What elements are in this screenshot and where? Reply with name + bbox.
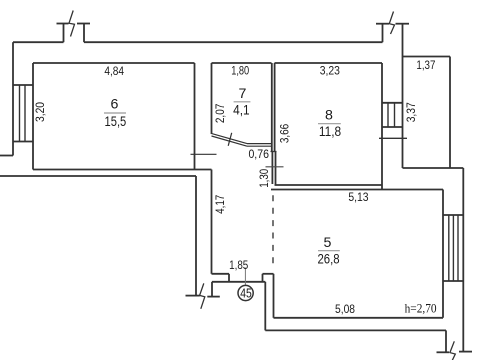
wire room 5 south wall inner (274, 317, 444, 319)
window W1 in left wall (13, 85, 33, 142)
node apartment number circle (238, 285, 253, 300)
svg-text:45: 45 (240, 287, 252, 301)
entry door recess jamb east (262, 274, 264, 282)
svg-text:4,84: 4,84 (104, 64, 124, 78)
jamb tick at sill (271, 151, 277, 153)
node room 5 fraction bar (318, 250, 340, 252)
entry door recess jamb west (228, 274, 230, 282)
wire left exterior wall (12, 42, 14, 155)
corridor south wall inner east segment (263, 273, 274, 275)
svg-text:4,1: 4,1 (233, 103, 250, 119)
svg-text:5,13: 5,13 (348, 190, 368, 204)
leader line to apartment number (244, 268, 246, 286)
svg-text:3,23: 3,23 (320, 64, 340, 78)
svg-text:1,80: 1,80 (231, 64, 249, 78)
wall between room 7 and room 8 west line upper (271, 63, 273, 152)
svg-text:26,8: 26,8 (317, 251, 339, 267)
room 8 walls (275, 63, 383, 190)
svg-text:11,8: 11,8 (319, 124, 341, 140)
door opening tick room 6 (191, 153, 217, 155)
wire left wall step to image edge (0, 155, 13, 157)
wire top exterior wall left of break (13, 41, 64, 43)
svg-text:5,08: 5,08 (335, 302, 355, 316)
svg-text:3,66: 3,66 (278, 124, 292, 143)
svg-text:8: 8 (325, 107, 333, 123)
wall between room 7 and room 8 east line upper (274, 63, 276, 152)
fraction bars (104, 102, 341, 251)
svg-text:6: 6 (110, 96, 118, 112)
window W3 in right wall (443, 215, 463, 281)
wire bottom-right wall stub (445, 330, 447, 352)
node bottom-right wall break (437, 341, 473, 360)
svg-text:1,37: 1,37 (416, 58, 435, 72)
svg-text:7: 7 (239, 86, 247, 102)
svg-text:3,20: 3,20 (33, 102, 47, 122)
wire outer boundary west of room 5 (264, 282, 266, 331)
node room 8 fraction bar (318, 123, 341, 125)
wire right inner wall (442, 190, 444, 318)
svg-text:h=2,70: h=2,70 (405, 301, 437, 315)
room 6 interior box (33, 63, 195, 170)
svg-text:5: 5 (324, 235, 332, 251)
landing box 1,37 (403, 57, 464, 169)
wire right outer wall (462, 168, 464, 352)
node top-right wall break (376, 12, 409, 43)
svg-text:4,17: 4,17 (213, 195, 227, 214)
wire room 5 north wall (271, 189, 443, 191)
wall west line lower (271, 152, 273, 185)
corridor south wall inner west segment (212, 273, 230, 275)
wire wall below room 6 bottom line (0, 175, 196, 177)
wire room 5 west wall (273, 274, 275, 318)
svg-text:15,5: 15,5 (105, 114, 127, 130)
wire top exterior wall right of break (84, 41, 383, 43)
entrance opening tick (379, 137, 407, 139)
wall east line lower (275, 152, 277, 186)
corridor south wall outer line (212, 281, 265, 283)
door D1 threshold bar 0,76 (247, 144, 272, 147)
svg-text:2,07: 2,07 (213, 103, 227, 123)
svg-text:3,37: 3,37 (404, 102, 418, 122)
wire corridor west wall inner line (211, 170, 213, 274)
node bottom-left wall break (186, 283, 220, 308)
wire room 5 south wall outer (265, 329, 446, 331)
wire corridor west wall outer line (195, 176, 197, 296)
node dashed zone boundary room 5 (272, 195, 274, 264)
node room 6 fraction bar (104, 112, 126, 114)
wire wall stub to bottom-left break (211, 282, 213, 297)
wire wall below room 6 top line (33, 169, 212, 171)
svg-text:1,85: 1,85 (229, 258, 248, 272)
stairwell east wall line (402, 24, 404, 168)
svg-text:1,30: 1,30 (257, 169, 271, 188)
opening tick 1,30 wall (266, 166, 284, 168)
room 7 walls (212, 63, 272, 134)
node top-left wall break (57, 11, 91, 43)
window W2 stairwell wall (382, 103, 403, 127)
svg-text:0,76: 0,76 (248, 147, 269, 161)
node room 7 fraction bar (234, 101, 251, 103)
door D1 leaf (open door of room 7) (211, 133, 247, 146)
